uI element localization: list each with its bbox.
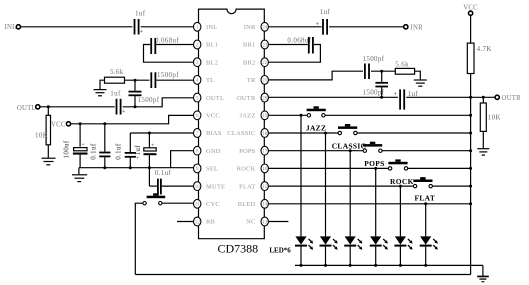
svg-text:0.1uf: 0.1uf: [90, 143, 98, 160]
svg-text:24: 24: [262, 26, 268, 31]
svg-text:RB: RB: [206, 219, 216, 226]
wire R1 left to ground: [100, 80, 105, 89]
node INR terminal: [404, 24, 423, 31]
ground (R2): [42, 158, 56, 165]
svg-text:4.7K: 4.7K: [477, 45, 492, 53]
svg-text:FLAT: FLAT: [415, 194, 436, 203]
svg-text:FLAT: FLAT: [239, 183, 255, 190]
node POPS rail end: [469, 149, 472, 152]
capacitor C12 0.068uf (BR1-BR2): [287, 37, 313, 54]
svg-text:1uf: 1uf: [110, 90, 121, 98]
svg-text:0.1uf: 0.1uf: [155, 169, 172, 177]
capacitor C15 1uf (OUTR coupling): [394, 89, 419, 109]
wire column 1: [300, 115, 302, 236]
svg-text:VCC: VCC: [51, 121, 66, 128]
node OUTR-rail junction: [469, 96, 472, 99]
svg-text:INL: INL: [206, 24, 217, 31]
svg-text:POPS: POPS: [239, 148, 256, 155]
node OUTL terminal: [17, 105, 40, 112]
capacitor C11 1uf (INR coupling): [316, 8, 331, 35]
wire S4 to right rail: [408, 167, 471, 169]
capacitor C13 1500pf (TR series): [363, 55, 385, 79]
wire S1 to right rail: [325, 114, 471, 116]
capacitor C14 1500pf (vertical, TR to OUTR): [363, 71, 389, 97]
svg-text:TL: TL: [206, 77, 214, 84]
IC right pin names: [227, 24, 256, 226]
node VCC rail junction a: [79, 122, 82, 125]
wire pin 14 BLED line: [269, 203, 471, 205]
wire C15 to OUTR terminal: [406, 96, 495, 98]
wire C2 to pin 2: [156, 44, 193, 46]
LED D4: [370, 236, 388, 265]
svg-text:19: 19: [262, 114, 268, 119]
wire pin 13 NC stub: [269, 221, 289, 223]
svg-text:14: 14: [262, 203, 268, 208]
ground (R3): [414, 80, 427, 86]
resistor R1 5.6k (TL): [105, 68, 125, 83]
svg-text:NC: NC: [246, 219, 255, 226]
svg-text:18: 18: [262, 132, 268, 137]
svg-text:INL: INL: [5, 24, 17, 31]
svg-text:CLASSIC: CLASSIC: [332, 142, 367, 151]
svg-text:1uf: 1uf: [320, 8, 331, 16]
wire R4 down right rail: [470, 74, 472, 275]
IC right pin circles 24-13: [261, 22, 268, 226]
svg-text:CD7388: CD7388: [218, 242, 259, 256]
wire LED cathode rail A: [295, 264, 483, 266]
node INL terminal: [5, 24, 21, 31]
IC right pin numbers: [262, 26, 268, 226]
svg-text:BL1: BL1: [206, 42, 218, 49]
wire R1 right to node TL: [125, 79, 150, 81]
node gnd rail junction d: [148, 166, 151, 169]
node col1 tap: [300, 114, 303, 117]
LED D5: [394, 236, 412, 265]
svg-text:OUTR: OUTR: [502, 95, 522, 102]
node col2 tap: [324, 132, 327, 135]
svg-text:INR: INR: [244, 24, 256, 31]
switch S6 (CYC): [143, 193, 165, 205]
node TR junction: [380, 70, 383, 73]
svg-text:10K: 10K: [488, 114, 501, 122]
node R2 tap junction: [47, 105, 50, 108]
ground (R5): [477, 149, 489, 155]
svg-text:5.6k: 5.6k: [110, 68, 124, 76]
svg-text:INR: INR: [411, 24, 424, 31]
wire pin 17 POPS line: [269, 150, 364, 152]
svg-text:ROCK: ROCK: [390, 177, 414, 186]
node BLED rail end: [469, 202, 472, 205]
svg-text:0.068uf: 0.068uf: [155, 36, 179, 44]
wire column 2: [325, 133, 327, 236]
wire pin 16 ROCK line: [269, 167, 389, 169]
switch S4 ROCK: [388, 159, 413, 186]
node FLAT rail end: [469, 185, 472, 188]
capacitor C2 0.068uf (BL1-BL2): [151, 36, 179, 54]
wire pin 18 CLASSIC line: [269, 132, 339, 134]
IC left pin names: [206, 24, 225, 226]
svg-text:GND: GND: [206, 148, 221, 155]
svg-text:OUTL: OUTL: [206, 95, 224, 102]
wire C2 to pin 3 (U-shape): [144, 45, 194, 63]
svg-text:JAZZ: JAZZ: [240, 113, 256, 120]
wire pin 24 to C11: [269, 26, 322, 28]
resistor R2 10K (OUTL to gnd): [35, 107, 51, 158]
LED D1: [295, 236, 313, 265]
svg-text:BIAS: BIAS: [206, 130, 222, 137]
node rail A junctions: [300, 264, 428, 267]
ground symbol (cap bank): [72, 168, 87, 182]
switch S5 FLAT: [413, 177, 435, 203]
capacitor C4 1500pf (vertical, TL to OUTL): [129, 80, 160, 107]
svg-text:ROCK: ROCK: [237, 166, 256, 173]
switch S2 CLASSIC: [332, 124, 367, 151]
wire S5 to right rail: [432, 185, 470, 187]
svg-text:21: 21: [262, 79, 268, 84]
capacitor C10 0.1uf (SEL-MUTE): [149, 169, 193, 195]
wire RB stub pin 12: [177, 221, 193, 223]
wire C1 to pin 1: [141, 26, 194, 28]
wire S3 to right rail: [382, 150, 471, 152]
svg-text:0.1uf: 0.1uf: [115, 143, 123, 160]
resistor R3 5.6k (TR): [395, 60, 414, 74]
svg-text:OUTL: OUTL: [17, 105, 36, 112]
capacitor C9 1uf (BIAS electrolytic): [134, 133, 156, 186]
wire rail A to ground: [482, 265, 484, 275]
wire bottom rail B: [135, 274, 470, 276]
svg-text:1uf: 1uf: [134, 145, 142, 156]
svg-text:15: 15: [262, 185, 268, 190]
ground (R1): [94, 90, 107, 96]
node BIAS junction: [148, 132, 151, 135]
svg-text:+: +: [136, 156, 139, 162]
svg-text:23: 23: [262, 43, 268, 48]
svg-text:100uf: 100uf: [63, 140, 71, 158]
ground rail (cap bank) to pin 9 SEL: [79, 167, 193, 169]
node VCC terminal (top right): [463, 5, 478, 16]
wire column 6: [425, 204, 427, 237]
IC U1 CD7388: [199, 9, 265, 255]
wire C3 to pin 4: [156, 79, 193, 81]
wire column 5: [399, 186, 401, 236]
node R5 tap junction: [482, 96, 485, 99]
svg-text:13: 13: [262, 220, 268, 225]
svg-text:1500pf: 1500pf: [363, 88, 385, 96]
wire pin 20 OUTR line: [269, 96, 399, 98]
svg-text:11: 11: [195, 203, 200, 208]
wire pin 19 JAZZ line: [269, 114, 308, 116]
svg-text:BLED: BLED: [238, 201, 256, 208]
switch S1 JAZZ: [306, 106, 326, 132]
wire S2 to right rail: [357, 132, 471, 134]
node C4 bottom junction: [134, 105, 137, 108]
ground (rail A): [477, 276, 489, 283]
wire pin 23 to C12: [269, 44, 308, 46]
wire VCC rail to pin 6: [71, 115, 194, 123]
svg-text:12: 12: [195, 220, 201, 225]
wire VCC to R4: [470, 15, 472, 43]
svg-text:VCC: VCC: [206, 113, 220, 120]
wire column 4: [375, 168, 377, 236]
wire R3 right to ground: [415, 71, 421, 79]
node ROCK rail end: [469, 167, 472, 170]
node gnd rail junction b: [103, 166, 106, 169]
resistor R4 4.7K: [467, 43, 492, 73]
wire C12 to pin 22 (U-shape): [269, 45, 321, 63]
capacitor C1 1uf (INL coupling): [135, 10, 146, 36]
svg-text:20: 20: [262, 96, 268, 101]
svg-text:OUTR: OUTR: [237, 95, 256, 102]
svg-text:BL2: BL2: [206, 59, 218, 66]
svg-text:SEL: SEL: [206, 166, 218, 173]
capacitor C8 0.1uf (BIAS decoupling): [115, 133, 136, 168]
resistor R5 10K (OUTR to gnd): [480, 97, 501, 148]
wire C13 to node TR: [371, 70, 395, 72]
svg-text:+: +: [82, 142, 85, 148]
node CLASSIC rail end: [469, 132, 472, 135]
svg-text:5.6k: 5.6k: [395, 60, 409, 68]
wire pin 21 TR jog: [269, 71, 364, 80]
IC left pin numbers: [195, 26, 201, 226]
capacitor C3 1500pf (TL series): [151, 71, 179, 88]
capacitor C5 1uf (OUTL coupling): [110, 90, 126, 116]
node VCC rail junction b: [103, 122, 106, 125]
node col6 tap: [424, 202, 427, 205]
wire switch S6 left to bottom rail B: [135, 203, 142, 274]
node col5 tap: [399, 185, 402, 188]
svg-text:17: 17: [262, 150, 268, 155]
wire C5 to pin 5 with jog: [123, 98, 194, 107]
LED D2: [320, 236, 338, 265]
svg-text:JAZZ: JAZZ: [306, 124, 326, 133]
svg-text:16: 16: [262, 167, 268, 172]
svg-text:1500pf: 1500pf: [138, 96, 160, 104]
switch S3 POPS: [363, 142, 385, 168]
svg-text:CLASSIC: CLASSIC: [227, 130, 255, 137]
wire BIAS line to pin 7: [130, 132, 193, 134]
svg-text:22: 22: [262, 61, 268, 66]
LED D6: [420, 236, 438, 265]
capacitor C7 0.1uf (VCC decoupling): [90, 124, 111, 168]
svg-text:CYC: CYC: [206, 201, 220, 208]
node TL junction: [134, 79, 137, 82]
svg-text:BR1: BR1: [243, 42, 256, 49]
node JAZZ rail end: [469, 114, 472, 117]
node gnd rail junction c: [129, 166, 132, 169]
svg-text:1500pf: 1500pf: [157, 71, 179, 79]
svg-text:BR2: BR2: [243, 59, 256, 66]
svg-text:TR: TR: [247, 77, 256, 84]
IC left pin circles 1-12: [194, 22, 201, 226]
svg-text:1500pf: 1500pf: [363, 55, 385, 63]
svg-text:1uf: 1uf: [135, 10, 146, 18]
node VCC terminal (left): [51, 121, 71, 128]
wire INL terminal to C1: [21, 26, 133, 28]
node col4 tap: [374, 167, 377, 170]
node col3 tap: [349, 149, 352, 152]
wire OUTL terminal to C5: [40, 106, 115, 108]
svg-text:LED*6: LED*6: [269, 247, 291, 255]
capacitor C6 100uf (VCC decoupling): [63, 124, 88, 168]
wire pin 8 GND drop to rail: [171, 151, 194, 168]
wire C11 to INR terminal: [329, 26, 404, 28]
node OUTR terminal: [495, 95, 521, 102]
wire switch S6 to pin 11: [162, 202, 193, 204]
svg-text:MUTE: MUTE: [206, 183, 225, 190]
svg-text:10K: 10K: [35, 132, 48, 140]
wire pin 15 FLAT line: [269, 185, 414, 187]
wire column 3: [349, 151, 351, 237]
node C14 bottom junction: [380, 96, 383, 99]
LED D3: [344, 236, 362, 265]
svg-text:POPS: POPS: [364, 159, 384, 168]
svg-text:1uf: 1uf: [408, 90, 419, 98]
svg-text:10: 10: [195, 185, 201, 190]
